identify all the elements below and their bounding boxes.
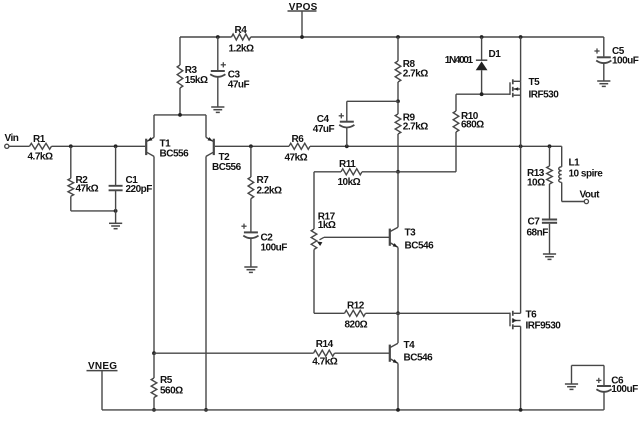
wire R17 bottom lead [313,249,315,313]
wire R7 top lead [250,146,252,177]
transistor T6 [509,313,511,327]
label C3 plus [221,64,226,66]
svg-text:R6: R6 [292,134,305,145]
svg-text:R14: R14 [316,339,334,350]
wire R3 bottom lead [179,88,181,115]
svg-text:T5: T5 [529,77,541,88]
svg-text:15kΩ: 15kΩ [185,75,208,86]
svg-text:IRF9530: IRF9530 [526,321,562,332]
transistor T2 [213,139,215,155]
svg-text:D1: D1 [489,49,502,60]
wire ground stem near C6 [571,365,573,383]
wire R11 line right [362,171,456,173]
svg-text:4.7kΩ: 4.7kΩ [312,356,337,367]
transistor T1 [145,139,147,155]
svg-text:47uF: 47uF [313,124,335,135]
terminal Vout [584,199,588,203]
svg-text:820Ω: 820Ω [345,320,368,331]
wire R12 to T6 gate [366,312,511,314]
wire R11 line left [314,171,341,173]
resistor R2 [68,178,74,196]
wire C6 top lead [603,365,605,385]
wire top supply rail right segment [251,36,604,38]
capacitor C3 [211,70,225,72]
resistor R10 [453,111,459,132]
wire R1 to T1 base [52,145,146,147]
resistor R8 [395,61,401,82]
svg-text:68nF: 68nF [527,227,549,238]
junction dot VPOS on rail [300,35,304,39]
wire C7 bottom lead [549,224,551,254]
junction dot bootstrap node [396,99,400,103]
svg-text:Vin: Vin [5,133,19,144]
svg-text:100uF: 100uF [261,242,288,253]
svg-text:560Ω: 560Ω [160,385,183,396]
svg-text:2.7kΩ: 2.7kΩ [403,121,428,132]
wire Vin to R1 [9,145,30,147]
resistor R9 [395,114,401,134]
svg-text:680Ω: 680Ω [461,120,484,131]
svg-text:47uF: 47uF [228,80,250,91]
transistor T4 [389,345,391,362]
ground under C7 [543,253,556,255]
junction dot R8 on rail [396,35,400,39]
svg-text:L1: L1 [569,157,581,168]
ground under C3 [211,106,224,108]
wire R10 top lead [455,94,457,111]
resistor R7 [248,177,254,199]
wire D1 top lead [481,37,483,60]
resistor R6 [289,143,310,149]
junction dot T1 collector R14 branch [152,351,156,355]
capacitor C6 [597,385,611,387]
svg-text:BC546: BC546 [404,352,434,363]
wire R8 to bootstrap node [397,82,399,101]
wire R9 bottom to R11 line [397,134,399,172]
wire R13 top lead [549,146,551,166]
svg-text:1.2kΩ: 1.2kΩ [229,44,254,55]
svg-text:100uF: 100uF [612,55,639,66]
wire T1 collector drop [153,156,155,353]
wire R8 top lead [397,37,399,61]
wire R13 to C7 [549,184,551,219]
svg-text:4.7kΩ: 4.7kΩ [28,152,53,163]
wire C3 bottom lead [217,77,219,106]
wire ground stem below C1 [115,211,117,223]
wire R2-C1 bottom link [71,210,116,212]
junction dot R9 R11 node [396,170,400,174]
label C4 plus [339,115,344,117]
svg-text:T6: T6 [526,309,538,320]
wire L1 to Vout [562,201,585,203]
wire R14 to T4 base [335,352,390,354]
svg-text:1kΩ: 1kΩ [318,220,336,231]
wire C1 bottom lead [115,191,117,211]
svg-text:47kΩ: 47kΩ [285,153,308,164]
resistor R4 [232,34,251,40]
svg-text:T3: T3 [405,228,417,239]
capacitor C5 [597,56,611,58]
svg-text:T4: T4 [404,340,416,351]
svg-text:R12: R12 [347,300,365,311]
resistor R11 [341,169,362,175]
wire T4 emitter drop [397,363,399,410]
wire L1 top lead [561,146,563,167]
junction dot D1 on rail [480,35,484,39]
wire R10 bottom lead [455,132,457,172]
svg-text:BC556: BC556 [160,149,190,160]
svg-text:10 spire: 10 spire [569,169,604,180]
resistor R1 [30,143,52,149]
wire C4 top lead [346,101,348,121]
resistor R3 [177,65,183,88]
junction dot C3 on rail [216,35,220,39]
svg-text:100uF: 100uF [611,384,638,395]
svg-text:IRF530: IRF530 [529,89,560,100]
svg-text:Vout: Vout [580,190,601,201]
ground under C2 [244,266,257,268]
junction dot C1 bottom [114,209,118,213]
junction dot T2 collector on bottom rail [204,408,208,412]
label C5 plus [594,50,599,52]
wire R17 top lead [313,172,315,229]
wire T2 collector drop [205,156,207,410]
wire C6 bottom lead [603,392,605,410]
wire C5 bottom lead [603,64,605,81]
wire C1 top lead [115,146,117,185]
wire T6 source drop [520,326,522,410]
junction dot T6 source on bottom rail [519,408,523,412]
wire T5 source drop [520,81,522,146]
svg-text:2.2kΩ: 2.2kΩ [257,185,282,196]
wiper of R17 [324,236,389,238]
inductor L1 [559,167,562,183]
junction dot T4 emitter on bottom rail [396,408,400,412]
wire R9 top lead [397,101,399,114]
junction dot R3 emitter join [178,113,182,117]
label C6 plus [596,379,601,381]
wire T6 drain riser [520,146,522,313]
svg-text:10Ω: 10Ω [527,177,545,188]
wire L1 bottom lead [561,182,563,201]
wire R2 bottom lead [70,196,72,211]
wire T5 gate line [456,93,510,95]
wire R14 line left [154,352,314,354]
svg-text:2.7kΩ: 2.7kΩ [403,68,428,79]
wire C5 top lead [603,37,605,56]
svg-text:C7: C7 [528,216,541,227]
wire T5 drain riser [520,37,522,81]
wire R7 to C2 [250,199,252,232]
junction dot C4 bottom on output line [345,144,349,148]
diode D1 [476,59,487,61]
junction dot R7 top [249,144,253,148]
resistor R5 [151,378,157,398]
wire T2 base to R6 [215,145,289,147]
ground under C1 [109,222,122,224]
svg-text:220pF: 220pF [126,184,153,195]
wire R5 top lead [153,353,155,378]
ground under C5 [597,80,610,82]
resistor R14 [314,350,335,356]
svg-text:10kΩ: 10kΩ [338,177,361,188]
junction dot R13 top on output line [548,144,552,148]
junction dot D1 gate node [480,92,484,96]
ground near C6 [565,383,578,385]
label C2 plus [241,225,246,227]
capacitor C1 [109,185,123,187]
wire T2 emitter riser [205,115,207,137]
resistor R13 [547,166,553,184]
svg-text:47kΩ: 47kΩ [76,184,99,195]
wire T4 collector riser [397,313,399,343]
svg-text:BC556: BC556 [212,162,242,173]
wire bootstrap link to C4 [347,100,398,102]
wire T3 collector riser [397,172,399,227]
junction dot C1 top [114,144,118,148]
wire bottom rail [102,409,604,411]
wire T1 emitter riser [153,115,155,137]
svg-text:R11: R11 [339,159,356,170]
junction dot T5 drain on rail [519,35,523,39]
svg-text:R4: R4 [235,25,248,36]
svg-text:BC546: BC546 [405,240,435,251]
junction dot T3 emitter R12 node [396,311,400,315]
capacitor C2 [244,231,258,233]
wire T3 emitter drop [397,247,399,313]
resistor R12 [345,310,366,316]
junction dot T5 source on output line [519,144,523,148]
wire top supply rail left segment [180,36,232,38]
terminal Vin [5,144,9,148]
wire C2 bottom lead [250,239,252,267]
wire output line [310,145,562,147]
junction dot R2 top [69,144,73,148]
potentiometer R17 [311,229,317,249]
transistor T3 [389,229,391,246]
wire C4 bottom lead [346,128,348,146]
transistor T5 [509,82,511,95]
wire R5 bottom lead [153,398,155,410]
wire C3 top lead [217,37,219,70]
wire R17 to R12 [314,312,345,314]
junction dot R5 on bottom rail [152,408,156,412]
wire R3 top lead [179,37,181,65]
capacitor C4 [340,121,354,123]
wire emitter join horizontal [154,114,206,116]
capacitor C7 [542,219,557,221]
wire C6 top link [572,364,605,366]
svg-text:1N4001: 1N4001 [445,55,474,66]
wire R2 top lead [70,146,72,178]
svg-text:R1: R1 [33,134,46,145]
